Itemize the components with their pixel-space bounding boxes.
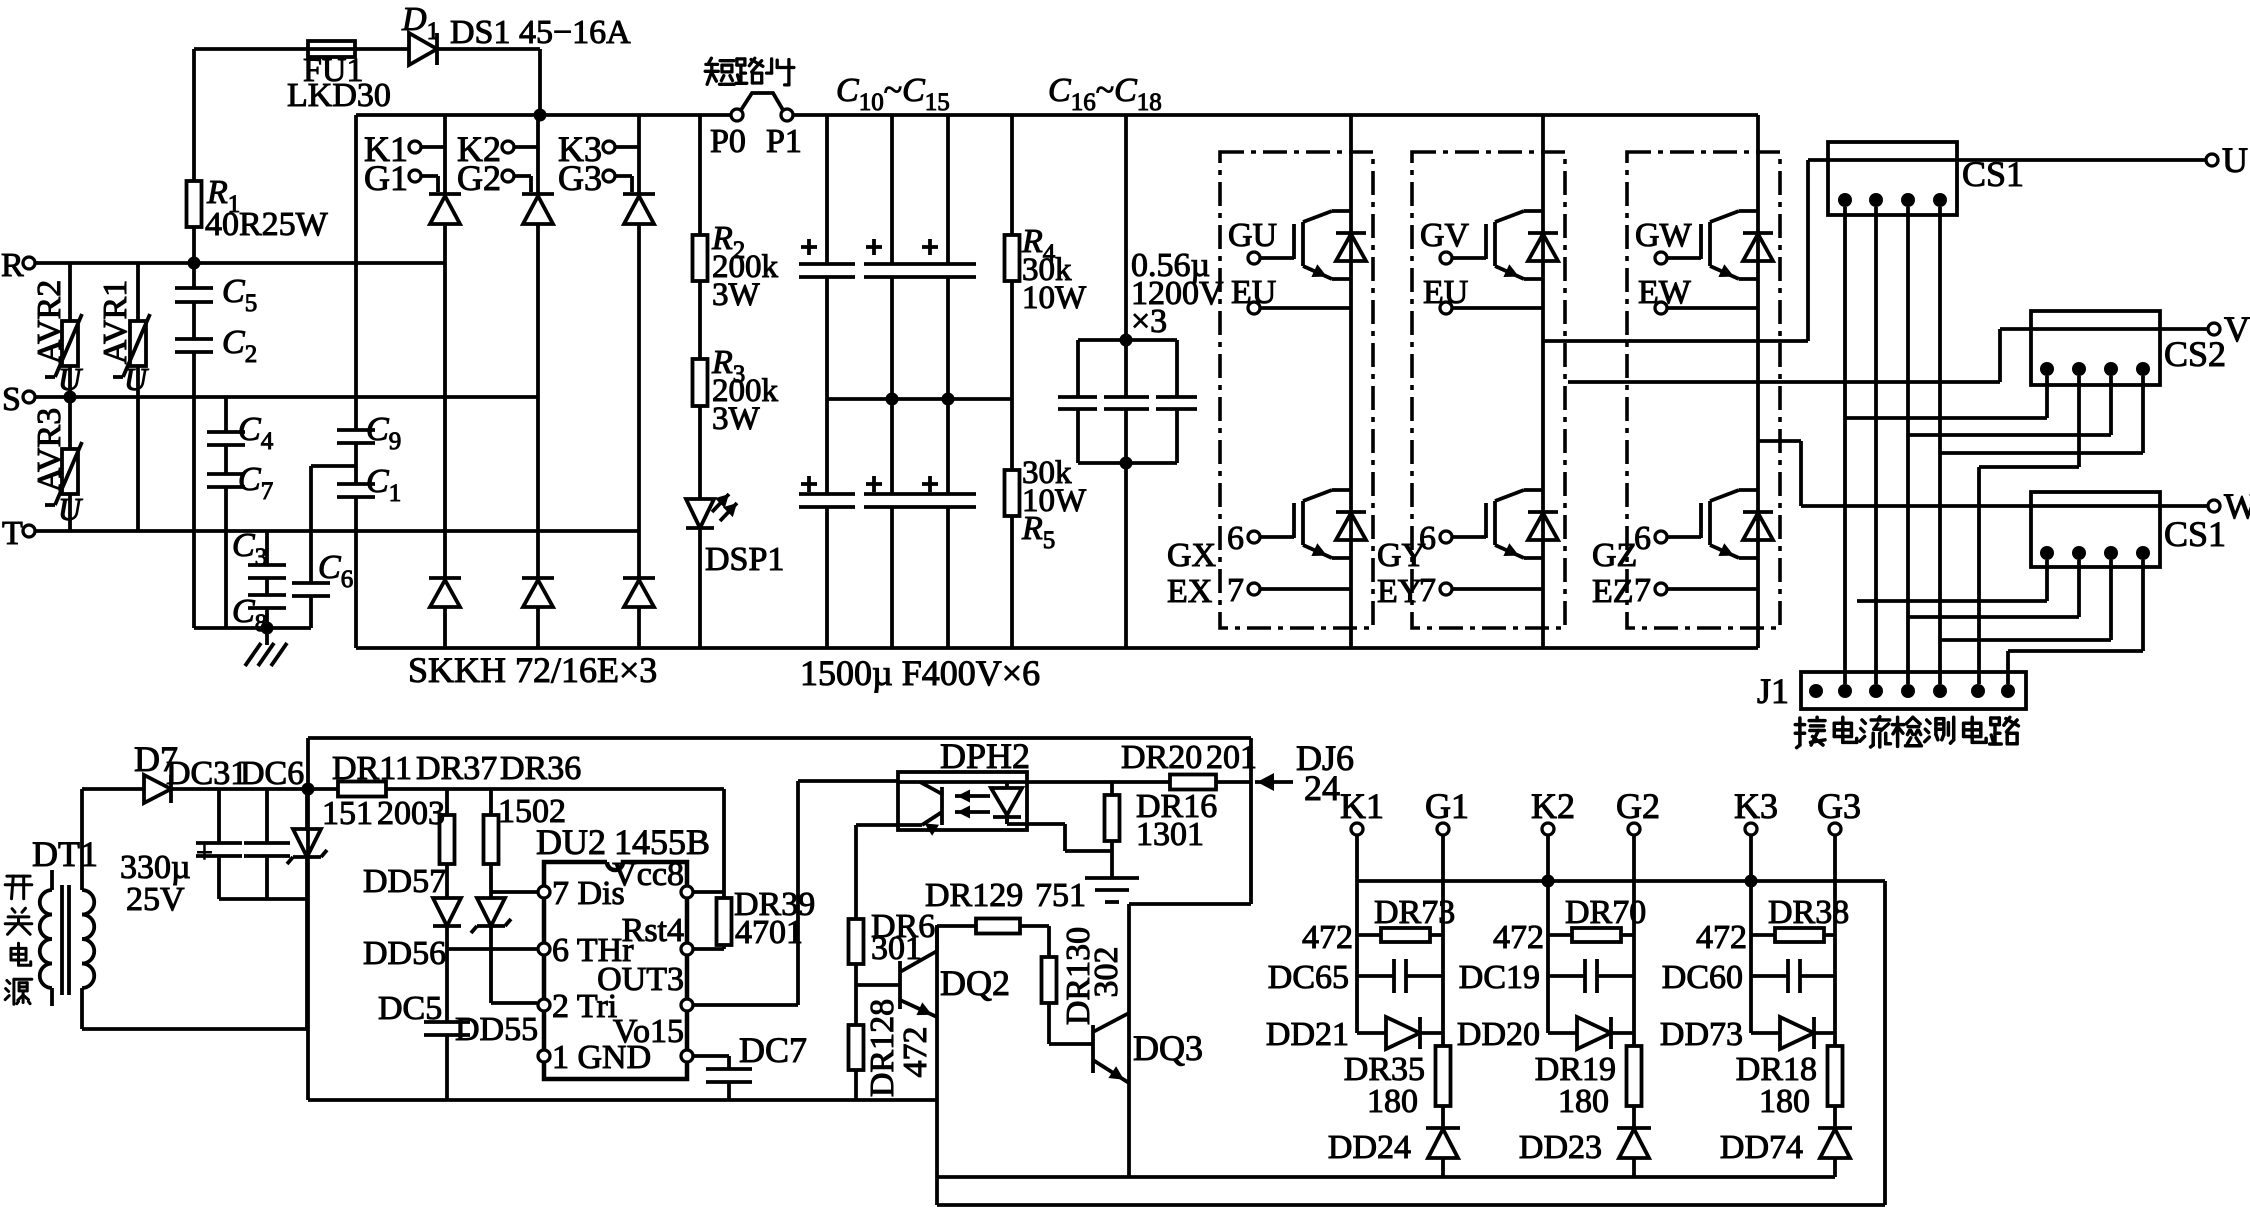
svg-text:G1: G1 xyxy=(364,158,408,198)
terminal T xyxy=(2,515,35,552)
terminal GW gate xyxy=(1635,217,1701,264)
IC pin 6 THr xyxy=(538,932,634,969)
label C9 xyxy=(366,411,401,455)
label C10~C15 xyxy=(836,72,950,116)
svg-text:DR11: DR11 xyxy=(332,750,412,787)
svg-text:6: 6 xyxy=(1227,520,1244,557)
wire fuse to D1 xyxy=(355,47,409,51)
svg-text:DC19: DC19 xyxy=(1459,959,1540,996)
svg-text:T: T xyxy=(2,515,23,552)
svg-text:DR20: DR20 xyxy=(1121,739,1202,776)
label C5 xyxy=(222,273,257,317)
svg-text:EY: EY xyxy=(1377,573,1422,610)
svg-text:DR73: DR73 xyxy=(1374,894,1455,931)
label DQ2 xyxy=(940,963,1010,1003)
zener diode supply xyxy=(287,789,327,899)
junction dot S line xyxy=(64,391,77,404)
svg-text:EX: EX xyxy=(1167,573,1212,610)
IGBT GU transistor xyxy=(1294,211,1351,279)
connector J1 xyxy=(1801,672,2026,709)
label DJ6 24 xyxy=(1296,738,1354,808)
terminal R xyxy=(1,247,35,284)
label DD73 xyxy=(1660,1016,1743,1053)
svg-text:DD55: DD55 xyxy=(455,1011,538,1048)
diode D1 xyxy=(409,33,437,65)
terminal G1 xyxy=(1425,786,1469,835)
terminal K2 xyxy=(457,129,538,169)
svg-text:GY: GY xyxy=(1377,537,1426,574)
diode DD73 xyxy=(1751,1017,1835,1049)
svg-text:EZ: EZ xyxy=(1592,573,1634,610)
svg-text:U: U xyxy=(58,361,83,397)
ground symbol xyxy=(245,628,287,666)
terminal V xyxy=(2208,309,2250,349)
svg-text:Vo15: Vo15 xyxy=(613,1013,684,1050)
wire zener rail xyxy=(1129,1175,1835,1179)
wire D1 to top bus xyxy=(437,49,540,115)
svg-text:U: U xyxy=(2222,140,2248,180)
IGBT GY transistor xyxy=(1486,490,1543,558)
wire CS1top pin2 to J1 xyxy=(1874,207,1878,684)
svg-text:SKKH 72/16E×3: SKKH 72/16E×3 xyxy=(408,650,657,690)
label D1 xyxy=(401,1,439,45)
svg-text:7: 7 xyxy=(1634,572,1651,609)
svg-text:GW: GW xyxy=(1635,217,1693,254)
svg-text:J1: J1 xyxy=(1757,671,1789,711)
capacitor DC7 xyxy=(694,1056,752,1100)
terminal G3 xyxy=(558,158,632,198)
wire top DC bus xyxy=(356,113,1758,117)
J1 pins xyxy=(1809,684,2015,698)
terminal K1 xyxy=(1340,786,1384,835)
IGBT GW transistor xyxy=(1701,211,1758,279)
wire W phase tap xyxy=(1759,441,2208,506)
svg-text:DR38: DR38 xyxy=(1768,894,1849,931)
wire K2 column xyxy=(1546,835,1550,1033)
svg-text:G3: G3 xyxy=(558,158,602,198)
svg-text:151: 151 xyxy=(322,795,373,832)
resistor DR129 xyxy=(976,919,1020,934)
svg-text:LKD30: LKD30 xyxy=(287,77,391,114)
label DD57 xyxy=(363,863,446,900)
terminal K3 xyxy=(558,129,639,169)
thyristor V3 column xyxy=(623,115,655,578)
DPH2 phototransistor xyxy=(898,782,1027,836)
svg-text:DQ3: DQ3 xyxy=(1133,1028,1203,1068)
label C7 xyxy=(238,461,273,505)
resistor DR36 xyxy=(484,789,499,898)
wire phase R xyxy=(35,261,445,265)
label DR18 180 xyxy=(1736,1051,1817,1120)
label duanlupian xyxy=(705,58,794,85)
label DC19 xyxy=(1459,959,1540,996)
label J1 xyxy=(1757,671,1789,711)
capacitor C3 xyxy=(248,531,286,578)
terminal S xyxy=(2,381,35,418)
wire phase T xyxy=(35,529,639,533)
wire CS2 pin1 xyxy=(1845,376,2047,418)
svg-text:DC65: DC65 xyxy=(1268,959,1349,996)
svg-text:×3: ×3 xyxy=(1131,303,1167,340)
label DT1 xyxy=(32,834,98,874)
IGBT module GV/GY dash-dot box xyxy=(1412,152,1565,628)
svg-text:EU: EU xyxy=(1423,274,1468,311)
svg-text:EU: EU xyxy=(1231,274,1276,311)
label DR130 302 xyxy=(1060,927,1125,1025)
junction dot R line xyxy=(188,257,201,270)
svg-text:K3: K3 xyxy=(1734,786,1778,826)
svg-text:180: 180 xyxy=(1367,1083,1418,1120)
IC pin OUT3 xyxy=(597,961,693,1011)
freewheel diode of GW xyxy=(1743,233,1773,261)
label C1 xyxy=(366,463,401,507)
svg-text:S: S xyxy=(2,381,21,418)
svg-text:DR37: DR37 xyxy=(416,750,497,787)
IC pin 2 Tri xyxy=(538,988,617,1025)
label DC65 xyxy=(1268,959,1349,996)
zener DD24 xyxy=(1426,1128,1460,1177)
svg-text:DPH2: DPH2 xyxy=(940,736,1030,776)
wire R1 top xyxy=(192,49,196,181)
wire V phase tap xyxy=(1568,329,2208,382)
wire K3 column xyxy=(1749,835,1753,1033)
junction dot ground xyxy=(261,622,274,635)
optocoupler DPH2 box xyxy=(898,772,1027,830)
DPH2 light arrows xyxy=(955,790,990,819)
svg-text:DD73: DD73 xyxy=(1660,1016,1743,1053)
wire CS1bot pin4 to J1 xyxy=(2008,560,2143,684)
label AVR1 xyxy=(97,280,134,364)
label AVR2 xyxy=(31,280,68,364)
svg-text:DD56: DD56 xyxy=(363,935,446,972)
label DR73 472 xyxy=(1302,894,1455,956)
label DR16 1301 xyxy=(1136,788,1217,853)
resistor DR16 xyxy=(1105,782,1120,878)
label 330u 25V xyxy=(120,836,213,918)
wire R5 bottom xyxy=(1010,516,1014,648)
resistor R1 xyxy=(187,181,202,227)
label GX EX xyxy=(1167,537,1216,610)
wire phase S xyxy=(35,395,538,399)
wire DR20 to box edge xyxy=(1216,780,1251,784)
svg-text:24: 24 xyxy=(1304,768,1340,808)
label U of AVR1 xyxy=(124,361,149,397)
label DR38 472 xyxy=(1696,894,1849,956)
svg-text:GX: GX xyxy=(1167,537,1216,574)
wire pin6 THr xyxy=(447,947,537,951)
terminal G2 xyxy=(457,158,531,198)
label DC7 xyxy=(739,1030,807,1070)
junction dots midline xyxy=(886,393,955,406)
svg-text:G2: G2 xyxy=(457,158,501,198)
label DC31 DC6 xyxy=(166,755,304,792)
label FU1 xyxy=(303,52,363,89)
wire R3 to DSP1 xyxy=(698,406,702,499)
svg-text:302: 302 xyxy=(1088,947,1125,998)
wire K1 column xyxy=(1355,835,1359,1033)
label U of AVR3 xyxy=(58,491,83,527)
label DD23 xyxy=(1519,1129,1602,1166)
svg-text:K2: K2 xyxy=(1531,786,1575,826)
label DD56 xyxy=(363,935,446,972)
control section box outline xyxy=(308,738,1251,1205)
svg-text:DD74: DD74 xyxy=(1720,1129,1803,1166)
IC pin Vo15 xyxy=(613,1013,693,1062)
terminal EU emitter xyxy=(1423,274,1543,314)
label D7 xyxy=(134,739,178,779)
freewheel diode of GY xyxy=(1528,512,1558,540)
terminal U xyxy=(2206,140,2248,180)
svg-text:3W: 3W xyxy=(712,401,761,437)
wire DPH2 LED cathode xyxy=(1007,815,1112,851)
capacitor C13 lower xyxy=(799,399,855,648)
zener DD56 xyxy=(471,898,511,1003)
label DR70 472 xyxy=(1493,894,1646,956)
label DR128 472 xyxy=(864,999,934,1097)
svg-text:CS1: CS1 xyxy=(2164,514,2226,554)
IC pin Rst4 xyxy=(622,912,693,955)
terminal pin 6 GX xyxy=(1227,520,1294,557)
svg-text:DR36: DR36 xyxy=(500,750,581,787)
label DR39 4701 xyxy=(734,886,815,951)
capacitor C8 xyxy=(248,578,286,628)
wire top feed from R1 to fuse xyxy=(194,47,308,51)
junction dots C16 block xyxy=(1120,334,1133,470)
wire ground rail of caps xyxy=(194,626,311,630)
IC pin Vcc8 xyxy=(612,856,693,898)
labels DR11 DR37 DR36 xyxy=(332,750,581,787)
label DR20 201 xyxy=(1121,739,1257,776)
wire G2 column xyxy=(1632,835,1636,1046)
wire R4 top xyxy=(1010,115,1014,235)
svg-text:OUT3: OUT3 xyxy=(597,961,684,998)
wire CS1bot pin2 xyxy=(1909,560,2079,617)
varistor AVR1 xyxy=(113,263,150,531)
svg-text:25V: 25V xyxy=(126,881,185,918)
svg-text:472: 472 xyxy=(1696,919,1747,956)
svg-text:CS2: CS2 xyxy=(2164,334,2226,374)
transformer DT1 xyxy=(40,789,94,1029)
svg-text:P1: P1 xyxy=(766,123,802,160)
thyristor V2 column xyxy=(522,115,554,578)
svg-text:DD20: DD20 xyxy=(1457,1016,1540,1053)
svg-text:DR129: DR129 xyxy=(925,877,1023,914)
label R1 40R25W xyxy=(205,174,329,243)
wire Vcc column xyxy=(694,789,724,898)
label CS1 top xyxy=(1962,154,2024,194)
terminal G1 xyxy=(364,158,438,198)
diode of arm 3 xyxy=(623,578,655,648)
label C3 xyxy=(232,527,267,571)
wire DQ2 collector to DR129 xyxy=(937,924,976,928)
wire emitter to DR6 xyxy=(856,825,898,919)
junction dot supply node xyxy=(302,783,315,796)
svg-text:751: 751 xyxy=(1035,877,1086,914)
svg-text:10W: 10W xyxy=(1022,280,1087,316)
capacitor DC6 xyxy=(244,789,290,899)
terminal pin 7 EY xyxy=(1419,572,1543,609)
label R2 200k 3W xyxy=(711,220,779,313)
wire R1 bottom xyxy=(192,227,196,263)
junction dot K2 xyxy=(1542,875,1555,888)
transistor DQ2 xyxy=(856,926,937,1017)
label R4 30k 10W xyxy=(1021,223,1087,316)
label SKKH 72/16E×3 xyxy=(408,650,657,690)
wire U phase tap xyxy=(1544,160,2206,341)
CS1 bottom pins xyxy=(2040,546,2150,560)
wire G1 column xyxy=(1441,835,1445,1046)
fuse FU1 xyxy=(308,41,355,57)
phase rail GW xyxy=(1756,115,1760,648)
capacitor C14 lower xyxy=(864,399,920,648)
svg-text:G1: G1 xyxy=(1425,786,1469,826)
svg-text:472: 472 xyxy=(897,1027,934,1078)
wire CS1top pin4 to J1 xyxy=(1938,207,1942,684)
svg-text:DC7: DC7 xyxy=(739,1030,807,1070)
diode DD21 xyxy=(1357,1017,1443,1049)
svg-text:DD21: DD21 xyxy=(1266,1016,1349,1053)
svg-text:180: 180 xyxy=(1558,1083,1609,1120)
wire CS1bot pin3 xyxy=(1941,560,2111,640)
svg-text:AVR3: AVR3 xyxy=(31,408,68,492)
IC DU2 1455B xyxy=(544,862,687,1079)
wire pin2 Tri xyxy=(491,1001,537,1005)
IGBT module GU/GX dash-dot box xyxy=(1220,152,1373,628)
wire bottom DC bus xyxy=(356,646,1758,650)
svg-text:V: V xyxy=(2224,309,2250,349)
capacitor C4 xyxy=(207,397,245,445)
IGBT GZ transistor xyxy=(1701,490,1758,558)
label R3 200k 3W xyxy=(711,344,779,437)
wire gate drive top rail xyxy=(1357,879,1885,883)
resistor DR70 xyxy=(1548,928,1634,942)
label DD21 xyxy=(1266,1016,1349,1053)
svg-text:DC5: DC5 xyxy=(378,990,442,1027)
resistor R4 xyxy=(1005,235,1020,281)
capacitor DC65 xyxy=(1357,959,1443,993)
wire R2 column top xyxy=(698,115,702,235)
svg-text:DS1 45−16A: DS1 45−16A xyxy=(450,14,631,51)
wire Vcc rail xyxy=(308,787,724,791)
label C2 xyxy=(222,324,257,368)
svg-text:EW: EW xyxy=(1638,274,1692,311)
capacitor C12 upper xyxy=(920,115,976,399)
IC pin 7 Dis xyxy=(538,875,625,912)
resistor DR11 xyxy=(338,782,386,797)
resistor DR128 xyxy=(849,985,864,1100)
current sensor CS1 bottom xyxy=(2031,492,2160,567)
svg-text:AVR1: AVR1 xyxy=(97,280,134,364)
wire CS2 pin2 to J1 xyxy=(1979,376,2079,684)
resistor DR18 xyxy=(1828,1046,1843,1128)
capacitor C7 xyxy=(207,445,245,628)
label DC60 xyxy=(1662,959,1743,996)
phase rail GV xyxy=(1541,115,1545,648)
capacitor C2 xyxy=(175,302,213,628)
resistor DR35 xyxy=(1436,1046,1451,1128)
label 0.56u 1200V x3 xyxy=(1131,247,1224,340)
junction dot top bus xyxy=(534,109,547,122)
wire CS1bot pin1 xyxy=(1857,560,2047,601)
label 30k 10W R5 xyxy=(1021,455,1087,554)
DPH2 LED xyxy=(991,782,1022,824)
terminal K2 xyxy=(1531,786,1575,835)
capacitor C11 upper xyxy=(864,115,920,399)
wire R2-R3 xyxy=(698,281,702,359)
label DR35 180 xyxy=(1344,1051,1425,1120)
wire secondary top xyxy=(82,787,144,791)
label DSP1 xyxy=(705,541,784,578)
capacitor C9 xyxy=(337,430,375,443)
capacitor C5 xyxy=(175,263,213,302)
terminal EW emitter xyxy=(1638,274,1758,314)
transistor DQ3 xyxy=(1049,1013,1129,1083)
current sensor CS1 top xyxy=(1828,142,1957,215)
label U of AVR2 xyxy=(58,361,83,397)
wire CS1top pin3 to J1 xyxy=(1906,207,1910,684)
resistor DR73 xyxy=(1357,928,1443,942)
labels 151 2003 1502 xyxy=(322,793,566,832)
LED DSP1 xyxy=(686,494,737,648)
wire capacitor midline xyxy=(827,397,1012,401)
resistor DR130 xyxy=(1042,957,1057,1044)
wire CS2 pin3 xyxy=(1908,376,2111,435)
shorting link xyxy=(741,93,783,110)
wire left edge of power block xyxy=(354,115,358,648)
svg-text:3W: 3W xyxy=(712,277,761,313)
resistor DR6 xyxy=(849,919,864,985)
capacitor C10 upper xyxy=(799,115,855,399)
label C16~C18 xyxy=(1048,72,1162,116)
resistor DR37 xyxy=(440,789,455,898)
wire C16 column xyxy=(1124,115,1128,648)
svg-text:DR128: DR128 xyxy=(864,999,901,1097)
freewheel diode of GZ xyxy=(1743,512,1773,540)
label jie dianliu jiance dianlu xyxy=(1795,717,2018,748)
terminal EU emitter xyxy=(1231,274,1351,314)
svg-text:301: 301 xyxy=(871,930,922,967)
terminal pin 7 EX xyxy=(1227,572,1351,609)
capacitor DC60 xyxy=(1751,959,1835,993)
varistor AVR3 xyxy=(45,397,82,531)
svg-text:DU2: DU2 xyxy=(536,822,606,862)
resistor DR19 xyxy=(1627,1046,1642,1128)
label DQ3 xyxy=(1133,1028,1203,1068)
zener DD23 xyxy=(1617,1128,1651,1177)
resistor R5 xyxy=(1005,470,1020,516)
label AVR3 xyxy=(31,408,68,492)
label C4 xyxy=(238,411,274,455)
svg-text:AVR2: AVR2 xyxy=(31,280,68,364)
current sensor CS2 xyxy=(2031,311,2160,385)
label DD74 xyxy=(1720,1129,1803,1166)
svg-text:472: 472 xyxy=(1302,919,1353,956)
CS1 top pins xyxy=(1838,193,1947,207)
capacitor DC31 xyxy=(196,789,242,899)
label GZ EZ xyxy=(1592,537,1637,610)
wire D7 to node xyxy=(171,787,308,791)
svg-text:U: U xyxy=(58,491,83,527)
resistor DR20 xyxy=(1170,775,1216,790)
svg-text:1301: 1301 xyxy=(1136,816,1204,853)
label DC5 xyxy=(378,990,442,1027)
svg-text:472: 472 xyxy=(1493,919,1544,956)
resistor R3 xyxy=(693,359,708,406)
label DS145-16A xyxy=(450,14,631,51)
terminal GU gate xyxy=(1228,217,1294,264)
svg-text:P0: P0 xyxy=(710,123,746,160)
wire gate drive right edge xyxy=(1883,881,1887,1205)
